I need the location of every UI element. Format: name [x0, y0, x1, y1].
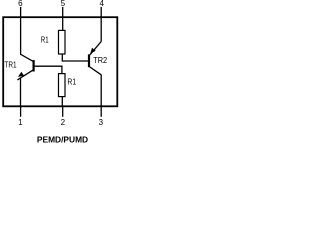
svg-text:2: 2	[61, 118, 66, 127]
svg-text:5: 5	[61, 0, 66, 8]
TR1 emitter wire with arrow	[17, 70, 33, 80]
svg-text:4: 4	[99, 0, 104, 8]
pin 5 stub wire	[62, 7, 64, 17]
wire TR1 emitter to pin 1	[20, 78, 22, 106]
pin 3 stub wire	[100, 106, 102, 117]
pin 4 stub wire	[100, 7, 102, 17]
wire pin6 to TR1 collector	[21, 17, 34, 61]
svg-text:PEMD/PUMD: PEMD/PUMD	[37, 135, 88, 145]
transistor TR2	[89, 42, 107, 75]
wire TR2 collector to pin 3	[100, 75, 102, 107]
svg-text:R1: R1	[67, 77, 76, 87]
svg-text:3: 3	[99, 118, 104, 127]
wire pin5 to upper R1	[62, 17, 64, 30]
resistor R1 upper	[41, 30, 65, 54]
resistor R1 lower	[59, 74, 77, 97]
TR2 emitter wire with arrow (PNP, arrow toward base)	[90, 42, 101, 55]
pin 6 stub wire	[20, 7, 22, 17]
pin 1 stub wire	[20, 106, 22, 117]
TR1 base bar	[32, 60, 34, 71]
svg-text:R1: R1	[41, 35, 49, 45]
pin 2 stub wire	[62, 106, 64, 117]
TR2 base bar	[88, 54, 90, 67]
wire upper R1 to TR2 base	[62, 54, 88, 61]
svg-text:6: 6	[18, 0, 23, 8]
wire TR1 base to lower R1	[35, 66, 62, 73]
svg-text:TR1: TR1	[4, 59, 16, 69]
svg-text:1: 1	[18, 118, 23, 127]
wire lower R1 to pin 2	[61, 97, 63, 107]
wire pin4 to TR2 emitter	[100, 17, 102, 41]
package outline	[3, 17, 117, 106]
transistor TR1	[4, 59, 33, 80]
TR2 collector wire	[90, 67, 102, 75]
svg-text:TR2: TR2	[93, 55, 107, 65]
